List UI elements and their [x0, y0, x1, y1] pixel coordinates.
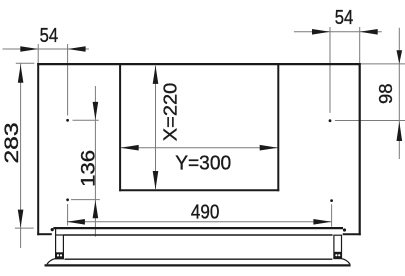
- svg-text:136: 136: [79, 150, 100, 187]
- svg-text:490: 490: [191, 201, 220, 224]
- svg-text:283: 283: [2, 123, 23, 164]
- svg-text:Y=300: Y=300: [175, 151, 231, 174]
- svg-text:54: 54: [335, 6, 354, 29]
- svg-text:98: 98: [376, 84, 396, 105]
- svg-text:X=220: X=220: [160, 83, 180, 142]
- svg-text:54: 54: [40, 24, 59, 47]
